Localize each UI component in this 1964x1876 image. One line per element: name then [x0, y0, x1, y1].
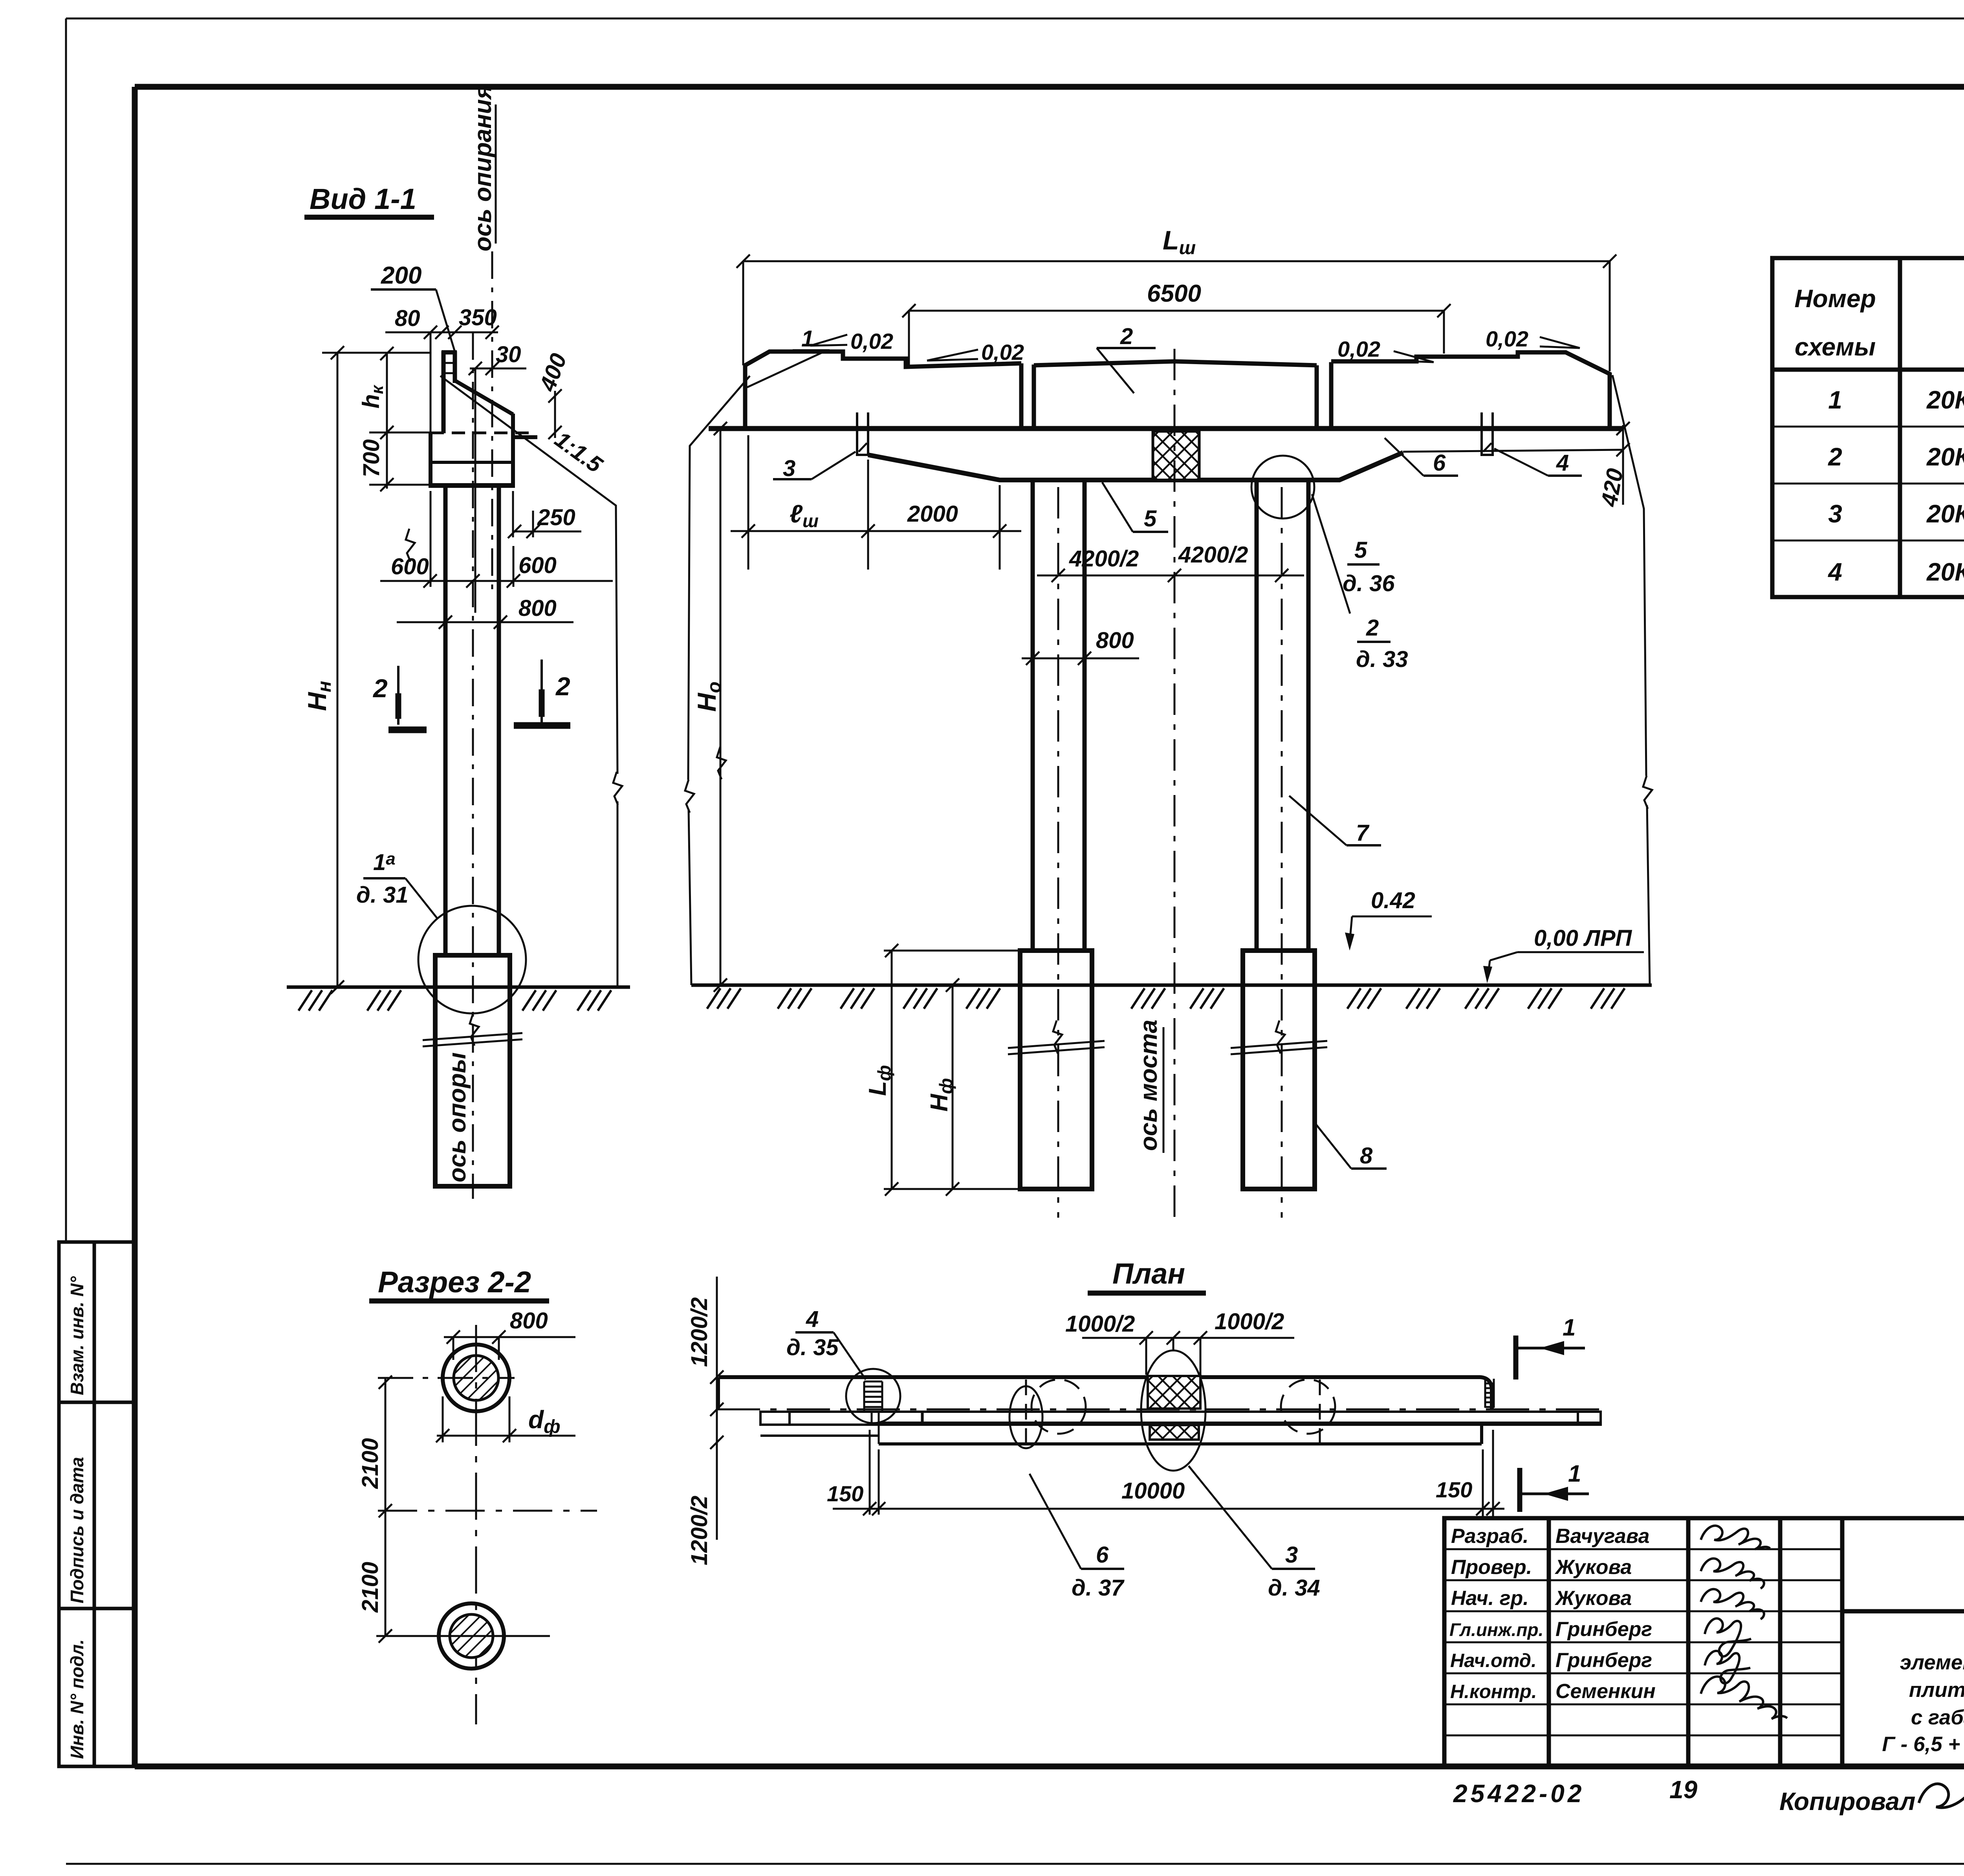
svg-text:Номер: Номер [1794, 284, 1876, 313]
svg-text:1: 1 [801, 326, 814, 352]
svg-text:800: 800 [510, 1308, 548, 1334]
svg-text:Вачугава: Вачугава [1555, 1525, 1649, 1548]
dim 800 [444, 1336, 575, 1338]
Ho dim [720, 429, 722, 985]
hidden cap top dashed [431, 432, 535, 434]
svg-text:20К 115.80 - 2 - ф: 20К 115.80 - 2 - ф [1926, 443, 1964, 471]
svg-text:Разрез 2-2: Разрез 2-2 [378, 1266, 531, 1299]
slope 1:1.5 thin line [440, 376, 617, 774]
section mark 2 left [397, 666, 399, 725]
piles [1031, 480, 1035, 951]
svg-text:7: 7 [1356, 820, 1370, 846]
svg-text:Взам. инв. N°: Взам. инв. N° [67, 1276, 87, 1395]
cap bottom [868, 453, 1403, 480]
6500 dim [909, 310, 1444, 312]
dim 30 [470, 368, 526, 370]
top dim line 80/350 [385, 332, 498, 333]
svg-text:20К 130.80 - 2а - ф: 20К 130.80 - 2а - ф [1926, 558, 1964, 586]
svg-text:Гринберг: Гринберг [1555, 1649, 1652, 1672]
dim 4200/2 4200/2 [1037, 575, 1304, 577]
svg-text:д. 34: д. 34 [1268, 1575, 1320, 1601]
svg-text:Нач.отд.: Нач.отд. [1450, 1650, 1537, 1671]
extension at cap left edge [430, 332, 432, 435]
extension line at cap top level left [369, 432, 431, 434]
dim 1000/2 1000/2 [1082, 1337, 1294, 1339]
svg-text:1: 1 [1568, 1460, 1581, 1487]
svg-text:800: 800 [1096, 628, 1134, 653]
svg-text:250: 250 [537, 505, 575, 530]
svg-text:6: 6 [1433, 450, 1446, 476]
svg-text:д. 33: д. 33 [1356, 647, 1408, 672]
svg-text:5: 5 [1354, 537, 1367, 563]
svg-text:0,00 ЛРП: 0,00 ЛРП [1534, 925, 1632, 951]
axis label underline [495, 104, 497, 244]
svg-text:4: 4 [1556, 450, 1569, 476]
ladder tube right end [1485, 1379, 1494, 1408]
svg-text:1000/2: 1000/2 [1215, 1309, 1284, 1334]
svg-text:20К 115.60 - 2 - ф: 20К 115.60 - 2 - ф [1926, 386, 1964, 414]
svg-text:30: 30 [496, 342, 521, 367]
svg-text:1000/2: 1000/2 [1065, 1311, 1135, 1337]
band C (slab outline) [878, 1425, 880, 1444]
svg-text:3: 3 [1285, 1542, 1298, 1568]
svg-text:Жукова: Жукова [1554, 1556, 1632, 1579]
Lf Hf dims [884, 950, 1020, 952]
ladder tube left (in circle) [864, 1381, 882, 1411]
Hn dimension line [337, 353, 339, 987]
small oval detail 6 [1009, 1386, 1042, 1448]
svg-text:700: 700 [359, 439, 384, 477]
svg-text:Вид 1-1: Вид 1-1 [310, 183, 416, 215]
svg-text:19: 19 [1669, 1775, 1698, 1804]
circle detail 4 [846, 1369, 900, 1423]
svg-text:3: 3 [783, 456, 795, 481]
dim 800 pile [1022, 658, 1139, 660]
svg-text:4: 4 [1827, 558, 1842, 586]
svg-text:Провер.: Провер. [1451, 1556, 1532, 1579]
pile axis [472, 332, 474, 1199]
svg-text:4200/2: 4200/2 [1069, 546, 1139, 572]
svg-text:ось опоры: ось опоры [444, 1052, 471, 1182]
svg-text:800: 800 [518, 595, 557, 621]
dim 700 [386, 432, 388, 489]
svg-text:Гл.инж.пр.: Гл.инж.пр. [1449, 1620, 1543, 1640]
dim hk [386, 353, 388, 432]
center oval detail 3 with crosshatch [1148, 1376, 1200, 1409]
center joint crosshatch [1153, 431, 1199, 480]
dim 2100 lower [385, 1511, 387, 1636]
Hn top extension line [322, 352, 431, 354]
center lines [475, 1325, 477, 1724]
bottom strip texts [1453, 1775, 1964, 1816]
cap top [709, 426, 1623, 431]
svg-text:150: 150 [827, 1481, 863, 1506]
svg-text:0.42: 0.42 [1371, 888, 1415, 913]
svg-text:3: 3 [1828, 500, 1842, 528]
axis line ось опирания [491, 251, 493, 597]
svg-text:1200/2: 1200/2 [687, 1297, 712, 1367]
Lsh dim [743, 260, 1610, 262]
pile shaft [443, 485, 448, 955]
dims 150 / 10000 / 150 [833, 1508, 1504, 1510]
svg-text:схемы: схемы [1795, 333, 1876, 361]
svg-text:5: 5 [1144, 506, 1157, 531]
left stamp boxes [59, 1242, 134, 1766]
buried casing [435, 955, 510, 1186]
dim 250 [513, 531, 581, 533]
svg-text:Н.контр.: Н.контр. [1450, 1681, 1537, 1702]
left embankment slope [688, 376, 750, 780]
svg-text:2100: 2100 [357, 1562, 383, 1613]
bridge axis [1174, 349, 1176, 1218]
svg-text:плитные пролетные строения: плитные пролетные строения [1909, 1678, 1964, 1702]
dim 420 [1622, 425, 1624, 505]
lsh 2000 dims [731, 530, 1021, 532]
svg-text:Семенкин: Семенкин [1555, 1680, 1656, 1703]
ground line main [691, 984, 1652, 987]
copier signature squiggle [1919, 1784, 1964, 1845]
section marks 1-1 [1513, 1336, 1519, 1380]
svg-text:0,02: 0,02 [850, 329, 893, 354]
svg-text:Разраб.: Разраб. [1451, 1525, 1528, 1548]
svg-text:План: План [1112, 1257, 1185, 1290]
svg-text:2100: 2100 [357, 1438, 383, 1489]
svg-text:ось опирания: ось опирания [469, 85, 496, 251]
svg-text:Подпись и дата: Подпись и дата [67, 1457, 87, 1603]
drainage tube right [1480, 412, 1483, 455]
df extensions and dim [442, 1396, 444, 1442]
dashed verticals (hidden joints) [1025, 1380, 1027, 1446]
dashed pile circles [1031, 1380, 1086, 1434]
svg-text:1: 1 [1828, 386, 1842, 414]
svg-text:20К 130.60 - 2а - ф: 20К 130.60 - 2а - ф [1926, 500, 1964, 528]
svg-text:д. 36: д. 36 [1343, 571, 1395, 596]
svg-text:2000: 2000 [907, 501, 958, 527]
svg-text:80: 80 [395, 306, 420, 331]
svg-text:150: 150 [1436, 1477, 1472, 1502]
svg-text:д. 31: д. 31 [356, 882, 409, 908]
svg-text:с габаритами Г - 6.5 + 2 × 0: с габаритами Г - 6.5 + 2 × 0,75 ; [1911, 1706, 1964, 1729]
svg-text:д. 35: д. 35 [786, 1335, 839, 1360]
shkaf wall [442, 351, 446, 433]
buried casings [1020, 951, 1092, 1189]
svg-text:2: 2 [555, 672, 570, 701]
section mark 2 right [540, 660, 543, 723]
dim 2100 upper [385, 1378, 387, 1511]
svg-text:0,02: 0,02 [1486, 326, 1528, 351]
detail circle [418, 906, 526, 1013]
svg-text:2: 2 [1120, 324, 1133, 349]
svg-text:8: 8 [1360, 1143, 1373, 1169]
bearing ledge [513, 435, 537, 439]
slab outline [745, 352, 1610, 431]
svg-text:Нач. гр.: Нач. гр. [1451, 1587, 1529, 1610]
svg-text:600: 600 [518, 553, 557, 578]
dim 600 600 [380, 580, 613, 582]
ground line left [287, 986, 630, 989]
left dim line 1200/2 1200/2 [716, 1277, 718, 1540]
lower pile section [439, 1603, 504, 1669]
signatures in title block [1701, 1526, 1787, 1719]
svg-text:1200/2: 1200/2 [687, 1496, 712, 1565]
svg-text:2: 2 [1828, 443, 1842, 471]
svg-text:200: 200 [381, 262, 421, 289]
middle axis dash [378, 1510, 597, 1512]
vertical thin extension through cap (30 dim) [475, 368, 476, 613]
svg-text:Копировал: Копировал [1779, 1787, 1915, 1816]
svg-text:Инв. N° подл.: Инв. N° подл. [67, 1639, 87, 1759]
svg-text:Гринберг: Гринберг [1555, 1618, 1652, 1641]
axis [717, 1409, 1605, 1411]
cap box [429, 433, 432, 485]
upper pile section [443, 1345, 509, 1411]
svg-text:4200/2: 4200/2 [1178, 542, 1248, 568]
svg-text:ось моста: ось моста [1135, 1020, 1162, 1151]
svg-text:2: 2 [1366, 615, 1379, 641]
casing break marks [1008, 1041, 1105, 1048]
svg-text:0,02: 0,02 [981, 340, 1024, 365]
svg-text:д. 37: д. 37 [1072, 1575, 1125, 1601]
band B (front strip of cap) [760, 1412, 1601, 1425]
svg-text:350: 350 [459, 305, 497, 330]
right embankment slope [1612, 375, 1646, 776]
svg-text:10000: 10000 [1121, 1478, 1185, 1504]
svg-text:2: 2 [372, 674, 388, 703]
svg-text:1: 1 [1563, 1314, 1576, 1341]
svg-text:6: 6 [1096, 1542, 1109, 1568]
svg-text:элементов устоев 20К Lш. Нн: элементов устоев 20К Lш. Нн под [1900, 1651, 1964, 1677]
svg-text:25422-02: 25422-02 [1453, 1779, 1585, 1808]
svg-text:Жукова: Жукова [1554, 1587, 1632, 1610]
dim 800 [397, 621, 573, 623]
leader to 2/d.33 [1312, 494, 1350, 614]
svg-text:Г - 6,5 + 2 × 1,5: Г - 6,5 + 2 × 1,5 [1882, 1733, 1964, 1756]
break lines on casing [423, 1033, 522, 1040]
svg-text:4: 4 [806, 1306, 819, 1332]
svg-text:6500: 6500 [1147, 280, 1201, 307]
svg-text:0,02: 0,02 [1337, 337, 1380, 361]
dim 400 (vertical) [554, 391, 556, 438]
drainage tube left [856, 412, 858, 455]
band A (cap rear part) [719, 1377, 1492, 1409]
detail circle on right pile top [1251, 456, 1314, 518]
corbel slope and face [456, 381, 513, 414]
